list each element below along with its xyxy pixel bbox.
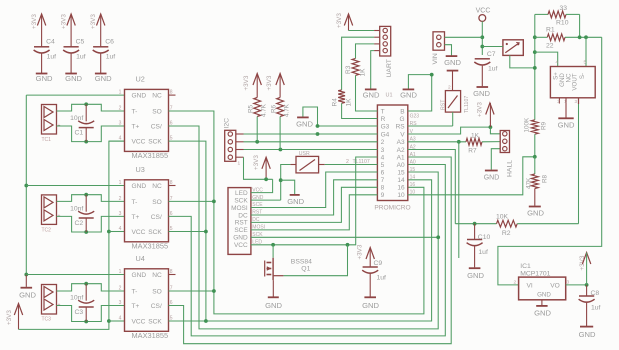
svg-text:SCK: SCK [148, 139, 162, 146]
svg-text:B: B [400, 108, 404, 115]
svg-text:1uf: 1uf [47, 54, 57, 61]
svg-text:RS: RS [396, 123, 406, 130]
svg-text:CS/: CS/ [151, 214, 162, 221]
svg-text:GND: GND [287, 197, 304, 206]
svg-text:1K: 1K [360, 68, 367, 77]
svg-text:GND: GND [132, 93, 147, 100]
svg-text:R5: R5 [248, 104, 255, 113]
svg-text:MAX31855: MAX31855 [132, 242, 169, 251]
svg-text:5: 5 [584, 60, 587, 66]
svg-text:USR: USR [299, 151, 310, 157]
svg-text:SCE: SCE [234, 227, 248, 234]
svg-text:R10: R10 [556, 20, 569, 27]
svg-text:33: 33 [560, 5, 568, 12]
svg-text:T: T [381, 108, 385, 115]
svg-text:NC: NC [152, 272, 162, 279]
svg-text:1uf: 1uf [488, 66, 498, 73]
svg-text:GND: GND [233, 235, 248, 242]
svg-text:CS/: CS/ [151, 303, 162, 310]
svg-text:+3V3: +3V3 [243, 75, 250, 90]
svg-text:T-: T- [132, 199, 138, 206]
svg-text:4: 4 [556, 60, 559, 66]
svg-text:1uf: 1uf [377, 275, 387, 282]
svg-text:10nf: 10nf [70, 115, 83, 122]
svg-text:T+: T+ [132, 303, 140, 310]
svg-text:SCK: SCK [234, 197, 248, 204]
svg-text:R7: R7 [468, 148, 477, 155]
svg-text:VO: VO [550, 283, 560, 290]
svg-text:U3: U3 [136, 165, 145, 174]
svg-text:C10: C10 [478, 234, 491, 241]
svg-text:+3V3: +3V3 [477, 102, 484, 117]
svg-text:R4: R4 [332, 98, 339, 107]
svg-text:C7: C7 [487, 51, 496, 58]
svg-text:C6: C6 [105, 39, 114, 46]
svg-text:RST: RST [441, 99, 447, 110]
svg-text:VCC: VCC [132, 318, 146, 325]
svg-text:R8: R8 [542, 174, 549, 183]
svg-text:SCK: SCK [148, 318, 162, 325]
svg-text:4: 4 [119, 226, 122, 232]
svg-text:3: 3 [119, 211, 122, 217]
svg-text:GND: GND [534, 309, 551, 318]
svg-text:2: 2 [119, 286, 122, 292]
svg-text:+3V3: +3V3 [266, 75, 273, 90]
svg-text:10nf: 10nf [70, 206, 83, 213]
svg-text:VOUT: VOUT [572, 73, 579, 90]
svg-text:+3V3: +3V3 [90, 14, 97, 29]
svg-text:1uf: 1uf [478, 249, 488, 256]
svg-text:PROMICRO: PROMICRO [374, 205, 410, 212]
svg-text:1uf: 1uf [106, 54, 116, 61]
svg-text:+3V3: +3V3 [6, 310, 13, 325]
svg-text:MAX31855: MAX31855 [132, 331, 169, 340]
svg-text:RST: RST [235, 220, 248, 227]
svg-text:9: 9 [381, 192, 385, 199]
svg-text:GND: GND [65, 74, 82, 83]
svg-text:SCK: SCK [148, 229, 162, 236]
svg-text:C8: C8 [591, 290, 600, 297]
svg-text:HALL: HALL [507, 160, 514, 177]
svg-text:UART: UART [386, 59, 393, 77]
svg-text:U1: U1 [386, 93, 393, 99]
svg-text:TL1107: TL1107 [464, 96, 470, 113]
svg-text:Q1: Q1 [301, 266, 310, 273]
svg-text:TC3: TC3 [42, 317, 52, 323]
svg-text:A0: A0 [410, 159, 416, 165]
svg-text:GND: GND [362, 301, 379, 310]
svg-text:S-: S- [579, 73, 586, 79]
svg-text:I2C: I2C [223, 118, 230, 129]
svg-text:G: G [400, 116, 405, 123]
svg-text:GND: GND [537, 292, 551, 299]
svg-text:C5: C5 [76, 39, 85, 46]
svg-text:A1: A1 [397, 154, 405, 161]
svg-text:+3V3: +3V3 [357, 244, 364, 259]
svg-text:IC1: IC1 [520, 263, 531, 270]
svg-text:GND: GND [265, 301, 282, 310]
svg-text:C1: C1 [75, 130, 84, 137]
svg-text:2: 2 [119, 196, 122, 202]
svg-text:GND: GND [132, 272, 147, 279]
svg-text:14: 14 [397, 177, 405, 184]
svg-text:47K: 47K [526, 177, 533, 189]
svg-text:VCC: VCC [476, 8, 491, 15]
svg-text:+3V3: +3V3 [336, 13, 343, 28]
svg-text:VCC: VCC [132, 139, 146, 146]
svg-text:C4: C4 [46, 39, 55, 46]
svg-text:GND: GND [95, 74, 112, 83]
svg-text:1: 1 [119, 180, 122, 186]
svg-text:T-: T- [132, 108, 138, 115]
svg-text:GND: GND [579, 330, 596, 339]
svg-text:MCP1701: MCP1701 [520, 270, 550, 277]
svg-text:2: 2 [448, 85, 451, 91]
svg-text:BSS84: BSS84 [291, 259, 312, 266]
svg-text:10nf: 10nf [70, 295, 83, 302]
svg-text:GND: GND [36, 74, 53, 83]
svg-text:8: 8 [381, 185, 385, 192]
svg-text:1: 1 [119, 90, 122, 96]
svg-text:1K: 1K [471, 132, 480, 139]
svg-text:GND: GND [363, 91, 380, 100]
svg-text:1: 1 [238, 161, 241, 167]
svg-text:G3: G3 [381, 123, 390, 130]
svg-text:4.7K: 4.7K [284, 103, 291, 117]
svg-text:C9: C9 [374, 260, 383, 267]
svg-text:10: 10 [397, 192, 405, 199]
svg-text:MAX31855: MAX31855 [132, 151, 169, 160]
svg-text:3: 3 [119, 300, 122, 306]
svg-text:SO: SO [152, 108, 162, 115]
svg-text:C3: C3 [75, 309, 84, 316]
svg-text:4: 4 [119, 136, 122, 142]
svg-text:1: 1 [119, 269, 122, 275]
svg-text:G23: G23 [410, 113, 420, 119]
svg-text:C2: C2 [75, 220, 84, 227]
svg-text:DC: DC [238, 212, 248, 219]
svg-text:+3V3: +3V3 [253, 155, 260, 170]
svg-text:SO: SO [152, 199, 162, 206]
svg-text:+3V3: +3V3 [31, 14, 38, 29]
svg-text:GND: GND [19, 291, 36, 300]
svg-text:A3: A3 [397, 139, 405, 146]
svg-text:TC2: TC2 [42, 227, 52, 233]
svg-text:GND: GND [558, 121, 575, 130]
svg-text:T-: T- [132, 288, 138, 295]
svg-text:TL1107: TL1107 [353, 159, 370, 165]
svg-text:2: 2 [381, 139, 385, 146]
svg-text:LED: LED [235, 190, 248, 197]
svg-text:3: 3 [381, 147, 385, 154]
svg-text:GND: GND [400, 91, 417, 100]
svg-text:10K: 10K [496, 213, 509, 220]
svg-text:A2: A2 [397, 147, 405, 154]
svg-text:5: 5 [381, 162, 385, 169]
svg-text:R6: R6 [271, 104, 278, 113]
svg-text:NC: NC [152, 93, 162, 100]
svg-text:22: 22 [546, 43, 554, 50]
svg-text:U4: U4 [136, 254, 145, 263]
svg-text:GND: GND [296, 120, 313, 129]
svg-text:SO: SO [152, 288, 162, 295]
svg-text:GND: GND [132, 183, 147, 190]
svg-text:G4: G4 [381, 131, 390, 138]
svg-text:A0: A0 [397, 162, 405, 169]
svg-text:V: V [400, 131, 405, 138]
svg-text:R: R [381, 116, 386, 123]
svg-text:4: 4 [381, 154, 385, 161]
svg-text:14: 14 [410, 175, 416, 181]
svg-text:VI: VI [527, 283, 533, 290]
svg-text:15: 15 [397, 169, 405, 176]
svg-text:T+: T+ [132, 123, 140, 130]
svg-text:2: 2 [514, 280, 517, 286]
svg-text:GND: GND [444, 58, 461, 67]
svg-text:R2: R2 [502, 230, 511, 237]
svg-text:T+: T+ [132, 214, 140, 221]
svg-text:2: 2 [346, 159, 349, 165]
svg-text:6: 6 [381, 169, 385, 176]
svg-text:VCC: VCC [234, 242, 248, 249]
svg-text:CS/: CS/ [151, 123, 162, 130]
svg-text:4: 4 [119, 316, 122, 322]
svg-text:U2: U2 [136, 75, 145, 84]
svg-text:GND: GND [527, 209, 544, 218]
svg-text:+3V3: +3V3 [61, 14, 68, 29]
svg-text:1uf: 1uf [76, 54, 86, 61]
svg-text:16: 16 [410, 182, 416, 188]
svg-text:VIN: VIN [432, 53, 439, 64]
svg-text:GND: GND [473, 89, 490, 98]
svg-text:1uf: 1uf [591, 305, 601, 312]
svg-text:2: 2 [119, 106, 122, 112]
svg-text:GND: GND [467, 271, 484, 280]
svg-text:GND: GND [484, 175, 500, 182]
svg-text:100K: 100K [524, 117, 531, 133]
svg-text:R9: R9 [541, 121, 548, 130]
svg-text:TC1: TC1 [42, 137, 52, 143]
svg-text:7: 7 [381, 177, 385, 184]
svg-text:1K: 1K [346, 98, 353, 107]
svg-text:R3: R3 [345, 65, 352, 74]
svg-text:15: 15 [410, 167, 416, 173]
svg-text:4.7K: 4.7K [261, 103, 268, 117]
svg-text:VCC: VCC [132, 229, 146, 236]
svg-text:MOSI: MOSI [231, 205, 248, 212]
svg-text:R1: R1 [546, 27, 555, 34]
svg-text:A1: A1 [410, 152, 416, 158]
svg-text:NC: NC [152, 183, 162, 190]
svg-text:3: 3 [119, 121, 122, 127]
svg-text:16: 16 [397, 185, 405, 192]
